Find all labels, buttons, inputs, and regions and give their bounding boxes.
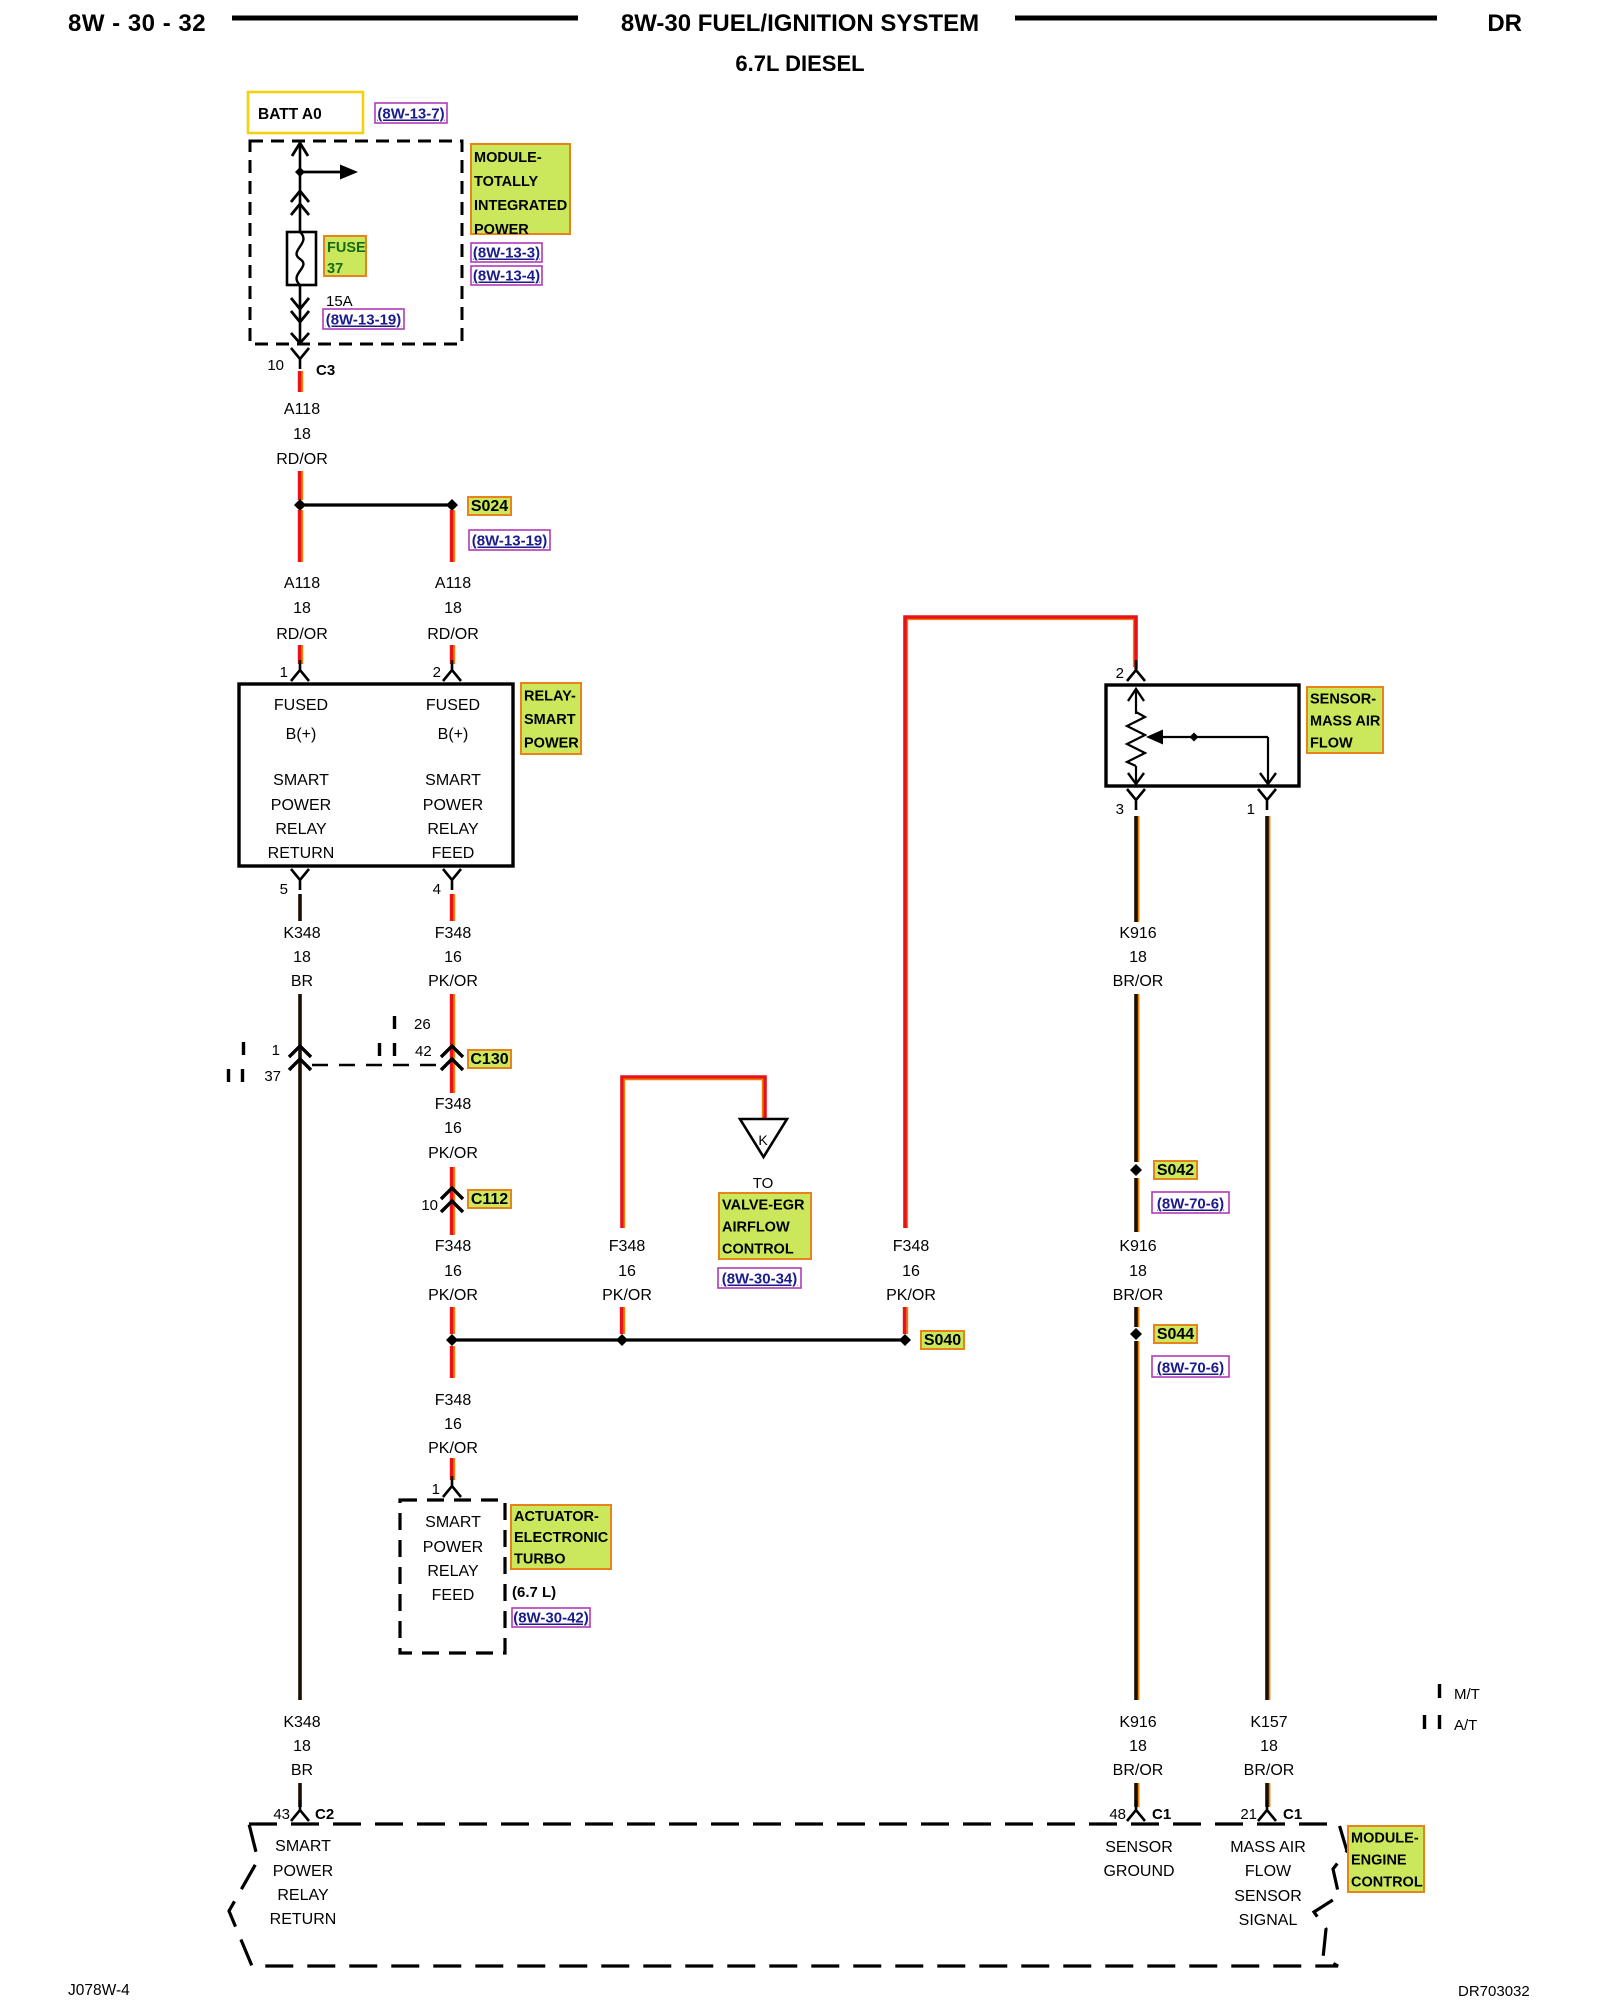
wire F348 EGR stub above S040 (622, 1307, 625, 1334)
link 8W-13-19 fuse (323, 309, 404, 329)
svg-text:21: 21 (1240, 1806, 1257, 1823)
wire K157 long run (1267, 816, 1270, 1700)
pin 2 connector relay (433, 660, 461, 681)
MAF wiper arrow (1146, 730, 1268, 745)
svg-text:C1: C1 (1152, 1806, 1171, 1823)
svg-text:CONTROL: CONTROL (722, 1241, 794, 1257)
splice S040 junction line (446, 1334, 911, 1346)
svg-text:(8W-30-42): (8W-30-42) (513, 1610, 589, 1627)
pin 2 connector MAF (1116, 660, 1145, 682)
MAF signal wire with arrow (1260, 737, 1276, 784)
text sensor ground (1103, 1839, 1174, 1880)
svg-text:1: 1 (432, 1481, 440, 1498)
wire A118 stub (300, 371, 303, 392)
header rule right (1015, 16, 1437, 21)
svg-text:TURBO: TURBO (514, 1551, 566, 1567)
C130 AT marks left (229, 1069, 243, 1082)
junction dot TIPM (295, 167, 305, 177)
svg-text:RELAY: RELAY (275, 821, 327, 838)
wire K157 bottom stub (1267, 1783, 1270, 1807)
link 8W-30-42 (512, 1608, 590, 1627)
wire F348 MAF stub above S040 (905, 1307, 908, 1334)
svg-text:16: 16 (902, 1263, 920, 1280)
svg-text:J078W-4: J078W-4 (68, 1982, 130, 1999)
svg-text:BR/OR: BR/OR (1113, 1762, 1164, 1779)
label wire A118 left lower (276, 575, 328, 643)
svg-text:GROUND: GROUND (1103, 1863, 1174, 1880)
wire K916 above S042 (1136, 994, 1139, 1162)
arrowhead up to BATT (292, 143, 308, 156)
label MODULE-TOTALLY INTEGRATED POWER (471, 144, 570, 238)
svg-text:K916: K916 (1119, 925, 1156, 942)
tag C130 (468, 1050, 511, 1068)
svg-text:ELECTRONIC: ELECTRONIC (514, 1530, 609, 1546)
svg-text:8W-30 FUEL/IGNITION SYSTEM: 8W-30 FUEL/IGNITION SYSTEM (621, 10, 979, 37)
C130 dashed connector line (312, 1064, 442, 1066)
wire K916 long run (1136, 1341, 1139, 1700)
svg-text:BATT A0: BATT A0 (258, 106, 322, 123)
chevron connector down pair TIPM (291, 298, 309, 322)
wire TIPM internal lower (299, 285, 302, 342)
C130 pin 26 label (414, 1016, 431, 1033)
pin 1 connector relay (280, 660, 309, 681)
svg-text:4: 4 (433, 881, 441, 898)
tag S044 (1154, 1325, 1197, 1343)
label FUSE 37 (324, 236, 366, 277)
wire A118 left to relay pin 1 (300, 645, 303, 664)
label wire K348 18 BR lower (283, 1714, 320, 1779)
C130 MT mark left (242, 1042, 245, 1055)
legend MT mark (1440, 1684, 1480, 1703)
svg-text:B(+): B(+) (286, 726, 317, 743)
svg-text:ACTUATOR-: ACTUATOR- (514, 1509, 599, 1525)
svg-text:FUSED: FUSED (274, 697, 328, 714)
header title (621, 10, 979, 37)
svg-text:SMART: SMART (425, 1514, 481, 1531)
pin 48 connector C1 (1109, 1800, 1171, 1823)
svg-text:RELAY: RELAY (277, 1887, 329, 1904)
svg-text:PK/OR: PK/OR (428, 1145, 478, 1162)
svg-text:FUSE: FUSE (327, 240, 366, 256)
svg-text:C112: C112 (471, 1191, 508, 1208)
wire F348 above S040 (452, 1307, 455, 1334)
svg-text:F348: F348 (435, 1238, 472, 1255)
svg-text:F348: F348 (435, 925, 472, 942)
wire A118 above S024 (300, 471, 303, 500)
svg-text:PK/OR: PK/OR (428, 973, 478, 990)
chevron connector up pair TIPM (291, 191, 309, 215)
label wire K916 18 BR/OR upper (1113, 925, 1164, 990)
module engine control dashed box (229, 1824, 1347, 1966)
svg-text:MODULE-: MODULE- (474, 150, 542, 166)
svg-text:18: 18 (293, 600, 311, 617)
svg-text:POWER: POWER (423, 1539, 483, 1556)
pin 4 connector relay (433, 869, 461, 898)
arrowhead down TIPM exit (291, 333, 309, 343)
MAF internal wire upper with arrow (1128, 689, 1144, 714)
wire A118 right below S024 (452, 510, 455, 562)
svg-text:16: 16 (444, 1120, 462, 1137)
svg-text:42: 42 (415, 1043, 432, 1060)
svg-text:MASS AIR: MASS AIR (1230, 1839, 1306, 1856)
label MODULE-ENGINE CONTROL (1348, 1826, 1424, 1892)
legend AT marks (1425, 1715, 1478, 1734)
svg-text:F348: F348 (609, 1238, 646, 1255)
svg-text:BR/OR: BR/OR (1113, 1287, 1164, 1304)
C130 pin 37 label (264, 1068, 281, 1085)
wire F348 MAF branch run (905, 617, 1136, 1228)
svg-text:(8W-13-19): (8W-13-19) (472, 533, 548, 550)
svg-text:SENSOR: SENSOR (1234, 1888, 1302, 1905)
link 8W-30-34 (718, 1268, 801, 1288)
svg-text:F348: F348 (435, 1392, 472, 1409)
link 8W-13-19 S024 (469, 530, 550, 550)
connector C130 chevrons left (289, 1046, 311, 1070)
wire K916 bottom stub (1136, 1783, 1139, 1807)
svg-text:RELAY-: RELAY- (524, 688, 576, 704)
wire F348 through C130 (452, 994, 455, 1093)
svg-text:10: 10 (267, 357, 284, 374)
wire K348 long run (298, 994, 302, 1700)
svg-text:RD/OR: RD/OR (427, 626, 479, 643)
connector C112 chevrons (441, 1188, 463, 1212)
wire TIPM internal upper (299, 145, 302, 232)
wire K916 below S042 (1136, 1178, 1139, 1232)
pin 1 connector MAF (1247, 789, 1276, 818)
C130 MT mark right (393, 1016, 396, 1029)
svg-text:(8W-13-3): (8W-13-3) (473, 245, 540, 262)
svg-text:RD/OR: RD/OR (276, 626, 328, 643)
svg-text:RELAY: RELAY (427, 821, 479, 838)
tag S024 (468, 497, 511, 515)
svg-text:M/T: M/T (1454, 1686, 1480, 1703)
svg-text:C130: C130 (470, 1051, 508, 1068)
wire F348 to turbo pin (452, 1458, 455, 1480)
svg-text:2: 2 (1116, 665, 1124, 682)
svg-text:37: 37 (327, 261, 343, 277)
label wire K157 18 BR/OR (1244, 1714, 1295, 1779)
svg-text:S042: S042 (1157, 1162, 1194, 1179)
svg-text:RETURN: RETURN (268, 845, 335, 862)
svg-text:BR/OR: BR/OR (1244, 1762, 1295, 1779)
svg-text:A118: A118 (284, 401, 320, 418)
svg-text:BR: BR (291, 1762, 313, 1779)
text smart power relay return (270, 1838, 337, 1928)
svg-text:POWER: POWER (524, 735, 579, 751)
svg-text:C3: C3 (316, 362, 335, 379)
wire K916 stub below MAF (1136, 816, 1139, 922)
svg-text:K916: K916 (1119, 1238, 1156, 1255)
svg-text:FEED: FEED (432, 1587, 475, 1604)
label wire F348 16 PK/OR EGR branch (602, 1238, 652, 1304)
wire F348 EGR branch run (622, 1077, 765, 1228)
label wire K916 18 BR/OR lower (1113, 1714, 1164, 1779)
pin 43 connector C2 (273, 1800, 334, 1823)
svg-text:F348: F348 (893, 1238, 930, 1255)
svg-text:6.7L DIESEL: 6.7L DIESEL (735, 51, 864, 76)
svg-text:VALVE-EGR: VALVE-EGR (722, 1197, 805, 1213)
svg-text:15A: 15A (326, 293, 353, 310)
label ACTUATOR-ELECTRONIC TURBO (511, 1505, 611, 1569)
svg-text:FLOW: FLOW (1245, 1863, 1292, 1880)
arrow branch right (300, 165, 358, 180)
wire A118 right to relay pin 2 (452, 645, 455, 664)
label SENSOR-MASS AIR FLOW (1307, 687, 1383, 753)
svg-text:FUSED: FUSED (426, 697, 480, 714)
module TIPM dashed box (250, 141, 462, 344)
label wire F348 16 PK/OR MAF branch (886, 1238, 936, 1304)
svg-text:PK/OR: PK/OR (602, 1287, 652, 1304)
footer drawing number left (68, 1982, 130, 1999)
label wire A118 18 RD/OR upper (276, 401, 328, 468)
link 8W-13-4 (471, 266, 542, 285)
svg-text:18: 18 (293, 426, 311, 443)
label wire F348 16 PK/OR below C130 (428, 1096, 478, 1162)
actuator electronic turbo dashed box (400, 1500, 505, 1653)
footer drawing number right (1458, 1983, 1530, 2000)
svg-text:1: 1 (1247, 801, 1255, 818)
svg-text:RETURN: RETURN (270, 1911, 337, 1928)
C130 pin 42 label (415, 1043, 432, 1060)
text 15A fuse rating (326, 293, 353, 310)
label wire A118 right lower (427, 575, 479, 643)
fuse F37 body (287, 232, 316, 285)
label wire K916 18 BR/OR mid (1113, 1238, 1164, 1304)
svg-text:16: 16 (618, 1263, 636, 1280)
svg-text:10: 10 (421, 1197, 438, 1214)
svg-text:26: 26 (414, 1016, 431, 1033)
label RELAY-SMART POWER (521, 683, 581, 754)
svg-text:(6.7 L): (6.7 L) (512, 1584, 556, 1601)
svg-text:POWER: POWER (273, 1863, 333, 1880)
C112 pin 10 label (421, 1197, 438, 1214)
svg-text:C2: C2 (315, 1806, 334, 1823)
splice S042 diamond (1130, 1164, 1142, 1176)
svg-text:3: 3 (1116, 801, 1124, 818)
svg-text:1: 1 (272, 1042, 280, 1059)
wire K348 stub below relay (298, 894, 302, 921)
header rule left (232, 16, 578, 21)
tag S042 (1154, 1161, 1197, 1179)
label VALVE-EGR AIRFLOW CONTROL (719, 1193, 811, 1259)
svg-text:16: 16 (444, 949, 462, 966)
wire A118 left below S024 (300, 510, 303, 562)
svg-text:5: 5 (280, 881, 288, 898)
svg-text:RELAY: RELAY (427, 1563, 479, 1580)
svg-text:16: 16 (444, 1263, 462, 1280)
C130 AT marks right (380, 1043, 395, 1056)
svg-text:AIRFLOW: AIRFLOW (722, 1219, 790, 1235)
svg-text:FLOW: FLOW (1310, 735, 1353, 751)
pin 3 connector MAF (1116, 789, 1145, 818)
svg-text:TO: TO (753, 1175, 774, 1192)
svg-text:INTEGRATED: INTEGRATED (474, 198, 567, 214)
tag C112 (468, 1190, 511, 1208)
svg-text:A/T: A/T (1454, 1717, 1477, 1734)
svg-text:18: 18 (1129, 949, 1147, 966)
text mass air flow sensor signal (1230, 1839, 1306, 1929)
link 8W-70-6 S044 (1152, 1356, 1229, 1377)
header page number (68, 10, 206, 37)
pin 5 connector relay (280, 869, 309, 898)
relay smart power box (239, 684, 513, 866)
svg-text:2: 2 (433, 664, 441, 681)
text TO (753, 1175, 774, 1192)
svg-text:(8W-13-7): (8W-13-7) (377, 106, 444, 123)
svg-text:K157: K157 (1250, 1714, 1287, 1731)
svg-text:S040: S040 (924, 1332, 961, 1349)
svg-text:37: 37 (264, 1068, 281, 1085)
svg-text:BR: BR (291, 973, 313, 990)
link 8W-13-7 (375, 103, 447, 123)
header subtitle (735, 51, 864, 76)
label wire F348 16 PK/OR above turbo (428, 1392, 478, 1457)
wire F348 stub below relay (452, 894, 455, 921)
svg-text:(8W-70-6): (8W-70-6) (1157, 1360, 1224, 1377)
svg-text:S044: S044 (1157, 1326, 1194, 1343)
svg-text:A118: A118 (284, 575, 320, 592)
battery feed box BATT A0 (248, 92, 363, 133)
svg-text:ENGINE: ENGINE (1351, 1852, 1407, 1868)
svg-text:SENSOR: SENSOR (1105, 1839, 1173, 1856)
sensor mass air flow box (1106, 685, 1299, 786)
svg-text:(8W-13-4): (8W-13-4) (473, 268, 540, 285)
svg-text:SIGNAL: SIGNAL (1239, 1912, 1298, 1929)
svg-text:K916: K916 (1119, 1714, 1156, 1731)
wire K916 above S044 (1136, 1307, 1139, 1327)
svg-text:B(+): B(+) (438, 726, 469, 743)
svg-text:43: 43 (273, 1806, 290, 1823)
svg-text:8W - 30 - 32: 8W - 30 - 32 (68, 10, 206, 37)
svg-text:TOTALLY: TOTALLY (474, 174, 539, 190)
svg-text:CONTROL: CONTROL (1351, 1874, 1423, 1890)
svg-text:SMART: SMART (275, 1838, 331, 1855)
svg-text:K348: K348 (283, 925, 320, 942)
pin 10 connector C3 (267, 348, 335, 379)
svg-text:18: 18 (293, 949, 311, 966)
svg-text:SMART: SMART (425, 772, 481, 789)
label wire K348 18 BR upper (283, 925, 320, 990)
svg-text:18: 18 (1129, 1738, 1147, 1755)
splice S024 junction (294, 499, 458, 511)
pin 21 connector C1 (1240, 1800, 1302, 1823)
svg-text:48: 48 (1109, 1806, 1126, 1823)
wire K348 bottom stub (298, 1783, 302, 1807)
label wire F348 16 PK/OR upper (428, 925, 478, 990)
svg-text:18: 18 (1129, 1263, 1147, 1280)
svg-text:PK/OR: PK/OR (886, 1287, 936, 1304)
svg-text:(8W-30-34): (8W-30-34) (722, 1271, 798, 1288)
svg-text:18: 18 (444, 600, 462, 617)
link 8W-70-6 S042 (1152, 1192, 1229, 1213)
wire F348 below S040 (452, 1346, 455, 1378)
svg-text:1: 1 (280, 664, 288, 681)
link 8W-13-3 (471, 243, 542, 262)
svg-text:A118: A118 (435, 575, 471, 592)
svg-text:(8W-70-6): (8W-70-6) (1157, 1196, 1224, 1213)
svg-text:BR/OR: BR/OR (1113, 973, 1164, 990)
svg-text:S024: S024 (471, 498, 508, 515)
svg-text:18: 18 (1260, 1738, 1278, 1755)
off-page connector K triangle (740, 1119, 787, 1157)
wire F348 through C112 (452, 1167, 455, 1235)
wire F348 EGR branch orange stripe (624, 1079, 762, 1228)
tag S040 (921, 1331, 964, 1349)
C130 pin 1 label (272, 1042, 280, 1059)
svg-text:SENSOR-: SENSOR- (1310, 691, 1376, 707)
svg-text:MODULE-: MODULE- (1351, 1830, 1419, 1846)
svg-text:16: 16 (444, 1416, 462, 1433)
svg-text:PK/OR: PK/OR (428, 1440, 478, 1457)
MAF internal wire lower with arrow (1128, 766, 1144, 784)
svg-text:SMART: SMART (524, 712, 576, 728)
svg-text:DR703032: DR703032 (1458, 1983, 1530, 2000)
svg-text:POWER: POWER (271, 797, 331, 814)
svg-text:POWER: POWER (474, 222, 529, 238)
connector C130 chevrons right (441, 1046, 463, 1070)
svg-text:K: K (758, 1132, 768, 1148)
svg-text:C1: C1 (1283, 1806, 1302, 1823)
svg-text:POWER: POWER (423, 797, 483, 814)
svg-text:FEED: FEED (432, 845, 475, 862)
svg-text:F348: F348 (435, 1096, 472, 1113)
MAF resistor zigzag (1127, 712, 1145, 766)
svg-text:K348: K348 (283, 1714, 320, 1731)
svg-text:SMART: SMART (273, 772, 329, 789)
svg-text:MASS AIR: MASS AIR (1310, 713, 1381, 729)
splice S044 diamond (1130, 1328, 1142, 1340)
svg-text:RD/OR: RD/OR (276, 451, 328, 468)
svg-text:PK/OR: PK/OR (428, 1287, 478, 1304)
label wire F348 16 PK/OR below C112 (428, 1238, 478, 1304)
svg-text:(8W-13-19): (8W-13-19) (326, 312, 402, 329)
svg-text:18: 18 (293, 1738, 311, 1755)
text 6.7L (512, 1584, 556, 1601)
svg-text:DR: DR (1487, 10, 1522, 37)
pin 1 connector turbo (432, 1476, 461, 1498)
header DR (1487, 10, 1522, 37)
